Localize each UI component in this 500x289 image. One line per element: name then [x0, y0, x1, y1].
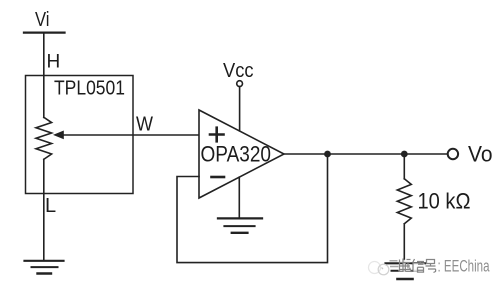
svg-text:TPL0501: TPL0501	[54, 78, 125, 100]
svg-text:W: W	[136, 114, 153, 136]
svg-text:L: L	[45, 195, 56, 217]
svg-text:10 kΩ: 10 kΩ	[418, 189, 471, 214]
svg-text:OPA320: OPA320	[201, 142, 272, 167]
svg-text:Vo: Vo	[468, 142, 493, 167]
svg-text:H: H	[47, 52, 61, 73]
svg-text:Vcc: Vcc	[223, 60, 254, 82]
svg-text:: EEChina: : EEChina	[438, 258, 491, 276]
svg-text:Vi: Vi	[35, 9, 50, 31]
